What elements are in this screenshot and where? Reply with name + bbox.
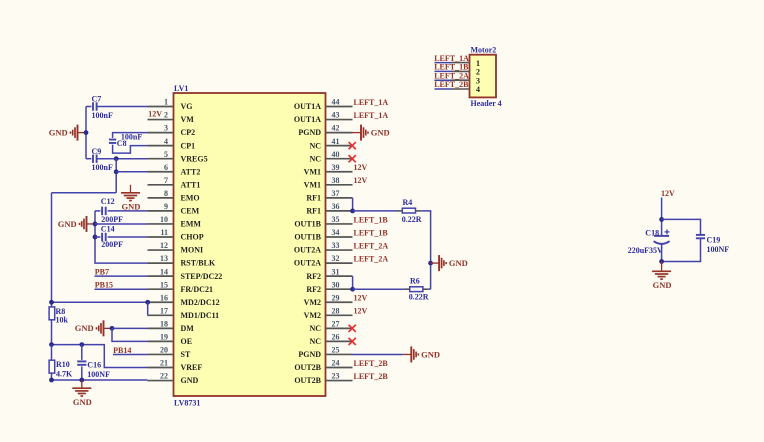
svg-text:MD1/DC11: MD1/DC11 [181,311,220,320]
capacitor C7 [93,102,97,110]
net label PB15 wire [95,288,148,290]
wire RF2 to R6 [353,288,404,290]
svg-text:LEFT_2A: LEFT_2A [434,71,469,80]
junction [84,130,89,135]
svg-text:1: 1 [164,98,168,107]
junction [79,378,84,383]
svg-text:VG: VG [181,102,193,111]
pin 4 CP1 [148,137,196,151]
pin 12 MONI [148,241,204,255]
svg-text:34: 34 [332,228,340,237]
svg-text:31: 31 [332,267,340,276]
net label PB14 wire [113,353,148,355]
capacitor C9 [93,155,97,163]
svg-text:37: 37 [332,189,340,198]
svg-text:14: 14 [160,267,168,276]
wire left rail (R8 to node) [51,320,53,345]
pin 43 OUT1A [294,111,353,125]
svg-text:9: 9 [164,202,168,211]
svg-text:RF1: RF1 [306,207,321,216]
svg-text:PGND: PGND [298,350,321,359]
junction node VREG5 [114,156,119,161]
wire C9 to pin 5 VREG5 [97,158,148,160]
svg-text:2: 2 [164,111,168,120]
capacitor C19 [696,235,705,238]
svg-text:44: 44 [332,98,340,107]
svg-text:LEFT_2A: LEFT_2A [354,255,389,264]
svg-text:4.7K: 4.7K [56,369,73,378]
capacitor C12 [102,207,106,215]
svg-text:C8: C8 [117,139,127,148]
svg-text:40: 40 [332,150,340,159]
svg-text:10: 10 [160,215,168,224]
svg-text:43: 43 [332,111,340,120]
svg-text:7: 7 [164,176,168,185]
svg-text:VM: VM [181,115,195,124]
net label PB7 wire [95,275,148,277]
pin 40 NC [309,150,352,164]
svg-text:RST/BLK: RST/BLK [181,259,216,268]
wire left rail (node to R10) [51,345,53,361]
resistor R6 [404,287,429,292]
svg-text:GND: GND [73,397,92,407]
svg-text:ST: ST [181,350,191,359]
wire RF1 pin37 to pin36 [352,198,354,211]
svg-text:30: 30 [332,280,340,289]
svg-text:GND: GND [653,280,672,290]
pin 7 ATT1 [148,176,201,190]
junction [49,342,54,347]
svg-text:16: 16 [160,293,168,302]
svg-text:OUT2B: OUT2B [294,363,321,372]
svg-text:26: 26 [332,333,340,342]
svg-text:OUT2B: OUT2B [294,376,321,385]
wire net LEFT_2A [435,79,453,81]
pin 8 EMO [148,189,200,203]
junction [659,259,664,264]
pin 18 DM [148,319,195,333]
svg-text:PGND: PGND [298,128,321,137]
wire C9 left lead [86,158,91,160]
wire R10 to bottom row [51,373,53,380]
svg-text:FR/DC21: FR/DC21 [181,285,213,294]
svg-text:10k: 10k [56,315,69,324]
svg-text:VREG5: VREG5 [181,154,208,163]
pin 37 RF1 [306,189,352,203]
svg-text:3: 3 [164,124,168,133]
svg-text:Motor2: Motor2 [471,45,497,54]
svg-text:GND: GND [75,323,94,333]
svg-text:LEFT_1B: LEFT_1B [354,215,389,224]
svg-text:8: 8 [164,189,168,198]
svg-text:21: 21 [160,359,168,368]
resistor R10 [49,360,55,373]
junction [49,378,54,383]
svg-text:LV8731: LV8731 [174,398,200,407]
svg-text:EMM: EMM [181,220,202,229]
svg-text:19: 19 [160,333,168,342]
svg-text:38: 38 [332,176,340,185]
wire pin3 CP2 to C8 [113,133,148,138]
svg-text:23: 23 [332,372,340,381]
svg-text:42: 42 [332,124,340,133]
ground (earth) bottom [72,380,91,407]
wire RF1 to R4 [353,210,397,212]
pin 11 CHOP [148,228,204,242]
svg-text:R4: R4 [403,198,413,207]
svg-text:41: 41 [332,137,340,146]
resistor R4 [397,208,422,213]
svg-text:100NF: 100NF [87,370,110,379]
pin 30 RF2 [306,280,352,294]
power GND (DM/OE) [75,320,112,336]
wire RF2 pin31 to pin30 [352,276,354,289]
svg-text:CP2: CP2 [181,128,196,137]
svg-text:11: 11 [160,228,168,237]
svg-text:RF2: RF2 [306,272,321,281]
svg-text:STEP/DC22: STEP/DC22 [181,272,223,281]
wire VREF node row [52,345,148,368]
pin 34 OUT1B [294,228,352,242]
pin 17 MD1/DC11 [148,306,220,320]
svg-text:NC: NC [309,154,321,163]
wire GND to pin 18 DM [112,327,148,329]
svg-text:R10: R10 [56,360,70,369]
svg-text:220uF35V: 220uF35V [628,246,663,255]
svg-text:22: 22 [160,372,168,381]
svg-text:12: 12 [160,241,168,250]
svg-text:VM1: VM1 [304,167,321,176]
svg-text:RF1: RF1 [306,193,321,202]
svg-text:C12: C12 [101,197,115,206]
svg-text:13: 13 [160,254,168,263]
svg-text:4: 4 [164,137,168,146]
svg-text:36: 36 [332,202,340,211]
pin 44 OUT1A [294,98,353,112]
wire pin16 row [52,301,148,303]
no connect pin 40 [349,155,356,162]
svg-text:NC: NC [309,337,321,346]
svg-text:NC: NC [309,141,321,150]
pin 27 NC [309,319,352,333]
svg-text:PB7: PB7 [95,268,109,277]
svg-text:OUT1B: OUT1B [294,220,321,229]
pin 2 VM [148,111,195,125]
svg-text:OUT1A: OUT1A [294,115,321,124]
wire to pin 17 MD1/DC11 [147,302,149,315]
svg-text:LEFT_1B: LEFT_1B [434,63,469,72]
svg-text:6: 6 [164,163,168,172]
svg-text:OUT1A: OUT1A [294,102,321,111]
junction [659,217,664,222]
pin 26 NC [309,333,352,347]
no connect pin 26 [349,338,356,345]
wire to pin 6 ATT2 [116,171,147,173]
wire net LEFT_1B [435,70,453,72]
svg-text:NC: NC [309,324,321,333]
svg-text:200PF: 200PF [101,240,123,249]
svg-text:GND: GND [371,127,390,137]
wire R6 to GND rail [429,288,431,290]
pin 5 VREG5 [148,150,208,164]
svg-text:LEFT_1A: LEFT_1A [354,98,389,107]
pin 25 PGND [298,346,352,360]
pin 9 CEM [148,202,200,216]
wire C7 left lead [86,106,91,108]
pin 16 MD2/DC12 [148,293,220,307]
svg-text:GND: GND [58,219,77,229]
pin 1 VG [148,98,193,112]
wire C16 top lead [81,345,83,360]
svg-text:RF2: RF2 [306,285,321,294]
wire VREG5 bus to left rail [52,192,117,194]
pin 31 RF2 [306,267,352,281]
wire C19 bottom lead [662,238,701,261]
pin 3 (Motor2) [452,76,480,85]
svg-text:GND: GND [49,127,68,137]
pin 3 CP2 [148,124,196,138]
svg-text:PB14: PB14 [113,346,131,355]
wire C18 bottom lead [661,245,663,262]
wire C8 to pin 4 CP1 [113,145,148,154]
power GND (pin 25) [403,346,440,362]
wire GND to pin 10 EMM [95,223,148,225]
capacitor C16 [77,361,86,364]
svg-text:1: 1 [476,59,480,68]
pin 19 OE [148,333,193,347]
svg-text:DM: DM [181,324,195,333]
svg-text:C9: C9 [92,147,102,156]
svg-text:LV1: LV1 [174,84,188,93]
junction C14 [93,235,98,240]
svg-text:LEFT_2A: LEFT_2A [354,241,389,250]
svg-text:20: 20 [160,346,168,355]
pin 29 VM2 [304,293,353,307]
power GND (C7/C9 bus) [49,125,86,141]
svg-text:18: 18 [160,319,168,328]
svg-text:28: 28 [332,306,340,315]
svg-text:27: 27 [332,319,340,328]
pin 33 OUT2A [294,241,353,255]
svg-text:0.22R: 0.22R [409,293,429,302]
pin 20 ST [148,346,191,360]
pin 6 ATT2 [148,163,201,177]
svg-text:33: 33 [332,241,340,250]
svg-text:17: 17 [160,306,168,315]
pin 1 (Motor2) [452,59,480,68]
pin 21 VREF [148,359,203,373]
connector Motor2 Header4 body [470,55,497,98]
svg-text:12V: 12V [354,294,368,303]
svg-text:VM2: VM2 [304,298,321,307]
wire C12/C14 ground bus [95,211,148,263]
svg-text:2: 2 [476,68,480,77]
svg-text:200PF: 200PF [101,215,123,224]
svg-text:C19: C19 [707,235,721,244]
svg-text:LEFT_2B: LEFT_2B [434,80,469,89]
svg-text:C16: C16 [87,360,101,369]
pin 36 RF1 [306,202,352,216]
svg-text:OUT2A: OUT2A [294,259,321,268]
svg-text:VM2: VM2 [304,311,321,320]
svg-text:OUT1B: OUT1B [294,233,321,242]
svg-text:C14: C14 [101,224,115,233]
capacitor C8 [109,140,116,143]
wire C12 left lead [95,210,100,212]
pin 41 NC [309,137,352,151]
svg-text:100nF: 100nF [92,163,113,172]
wire pin 25 PGND [353,353,403,355]
svg-text:25: 25 [332,346,340,355]
junction left rail [49,300,54,305]
power GND (RF rail) [431,255,468,271]
pin 13 RST/BLK [148,254,216,268]
ground (earth) at pin 7 ATT1 [130,184,132,186]
wire C16 bottom lead [81,366,83,380]
wire C14 left lead [95,236,100,238]
svg-text:PB15: PB15 [95,281,113,290]
svg-text:ATT1: ATT1 [181,180,201,189]
svg-text:12V: 12V [661,189,675,198]
IC U LV1 LV8731 body [174,93,326,396]
power GND (pin 42 PGND) [353,125,390,141]
svg-text:3: 3 [476,76,480,85]
svg-text:GND: GND [122,202,141,212]
svg-text:MD2/DC12: MD2/DC12 [181,298,220,307]
svg-text:Header 4: Header 4 [471,99,502,108]
svg-text:EMO: EMO [181,193,200,202]
svg-text:OE: OE [181,337,193,346]
svg-text:32: 32 [332,254,340,263]
svg-text:12V: 12V [148,110,162,119]
wire GND to pin 19 OE [112,328,148,341]
pin 23 OUT2B [294,372,352,386]
wire C14 to pin 11 CHOP [108,236,148,238]
svg-text:C18: C18 [645,229,659,238]
pin 42 PGND [298,124,352,138]
wire net LEFT_1A [435,62,453,64]
svg-text:100NF: 100NF [707,245,730,254]
pin 10 EMM [148,215,202,229]
pin 38 VM1 [304,176,353,190]
junction C16 top [79,342,84,347]
svg-text:CP1: CP1 [181,141,196,150]
svg-text:15: 15 [160,280,168,289]
svg-text:VREF: VREF [181,363,203,372]
pin 22 GND [148,372,199,386]
capacitor C14 [102,233,106,241]
svg-text:0.22R: 0.22R [402,215,422,224]
svg-text:LEFT_2B: LEFT_2B [354,359,389,368]
svg-text:39: 39 [332,163,340,172]
wire C7/C9 ground bus [85,107,87,159]
wire top to C19 [662,219,701,234]
svg-text:VM1: VM1 [304,180,321,189]
wire R4 to GND rail [421,211,430,289]
wire bottom GND row to pin 22 [52,379,148,381]
power GND (C12/C14 bus) [58,216,95,232]
pin 24 OUT2B [294,359,352,373]
svg-text:LEFT_1A: LEFT_1A [434,54,469,63]
svg-text:GND: GND [181,376,199,385]
wire C7 to pin 1 [97,106,148,108]
svg-text:12V: 12V [354,176,368,185]
svg-text:24: 24 [332,359,340,368]
junction RF2 [350,287,355,292]
resistor R8 [49,307,55,320]
pin 32 OUT2A [294,254,353,268]
pin 35 OUT1B [294,215,352,229]
no connect pin 41 [349,142,356,149]
svg-text:29: 29 [332,293,340,302]
pin 15 FR/DC21 [148,280,213,294]
svg-text:ATT2: ATT2 [181,167,201,176]
pin 14 STEP/DC22 [148,267,223,281]
pin 2 (Motor2) [452,68,480,77]
wire C12 to pin 9 CEM [108,210,148,212]
wire 12V down [661,198,663,236]
svg-text:LEFT_1B: LEFT_1B [354,228,389,237]
svg-text:R6: R6 [410,276,420,285]
svg-text:MONI: MONI [181,246,204,255]
junction pin16 [145,300,150,305]
capacitor C18 (polarized) [654,229,670,244]
junction [93,222,98,227]
pin 39 VM1 [304,163,353,177]
svg-text:5: 5 [164,150,168,159]
pin 28 VM2 [304,306,353,320]
wire left rail [51,193,53,307]
wire net LEFT_2B [435,88,453,90]
svg-text:4: 4 [476,85,480,94]
svg-text:12V: 12V [354,307,368,316]
svg-text:GND: GND [421,349,440,359]
pin 4 (Motor2) [452,85,480,94]
junction pin 6 [114,169,119,174]
svg-text:OUT2A: OUT2A [294,246,321,255]
wire VREG5 down-bus [115,159,117,193]
svg-text:12V: 12V [354,163,368,172]
svg-text:CHOP: CHOP [181,233,204,242]
svg-text:CEM: CEM [181,207,200,216]
svg-text:LEFT_2B: LEFT_2B [354,372,389,381]
svg-text:C7: C7 [92,95,102,104]
svg-text:100nF: 100nF [92,111,113,120]
junction RF1 [350,209,355,214]
svg-text:GND: GND [449,258,468,268]
svg-text:LEFT_1A: LEFT_1A [354,111,389,120]
junction GND rail [428,261,433,266]
svg-text:35: 35 [332,215,340,224]
no connect pin 27 [349,325,356,332]
ground (earth) C18/C19 [652,262,671,291]
junction DM [110,326,115,331]
